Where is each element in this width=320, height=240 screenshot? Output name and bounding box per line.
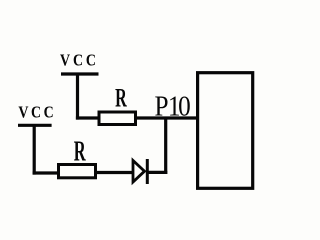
- wire VCC1 to R1: [76, 116, 100, 119]
- wire diode to junction: [147, 171, 167, 174]
- diode D1 triangle (anode): [133, 161, 145, 183]
- wire R2 to diode: [96, 171, 134, 174]
- wire VCC2 to R2: [33, 171, 60, 174]
- power symbol VCC2 (left): [18, 103, 56, 125]
- svg-text:VCC: VCC: [60, 52, 99, 70]
- svg-text:R: R: [74, 136, 87, 168]
- diode D1 cathode bar: [146, 159, 149, 184]
- wire node junction to diode row: [164, 118, 167, 174]
- svg-text:R: R: [115, 84, 127, 113]
- label P10 (pin name): [155, 90, 191, 122]
- svg-text:VCC: VCC: [18, 103, 56, 121]
- IC block U1: [198, 73, 253, 189]
- power symbol VCC1 (top): [60, 52, 99, 74]
- resistor R1: [99, 112, 136, 125]
- wire VCC1 stem: [76, 74, 79, 120]
- label R (R2 value): [74, 136, 87, 168]
- wire VCC2 stem: [33, 125, 36, 174]
- svg-text:P: P: [155, 90, 169, 122]
- svg-text:0: 0: [178, 90, 191, 122]
- resistor R2: [59, 165, 96, 178]
- label R (R1 value): [115, 84, 127, 113]
- wire R1 to IC: [137, 116, 197, 119]
